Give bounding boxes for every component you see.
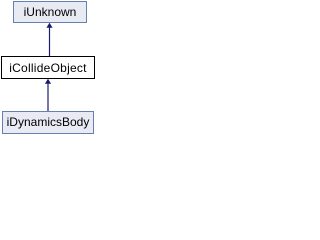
class box iCollideObject xyxy=(1,56,95,79)
class box iDynamicsBody xyxy=(2,111,94,134)
wire inheritance arrow 2 xyxy=(0,0,99,136)
wire inheritance arrow 1 xyxy=(0,0,99,136)
class box iUnknown xyxy=(13,1,87,23)
